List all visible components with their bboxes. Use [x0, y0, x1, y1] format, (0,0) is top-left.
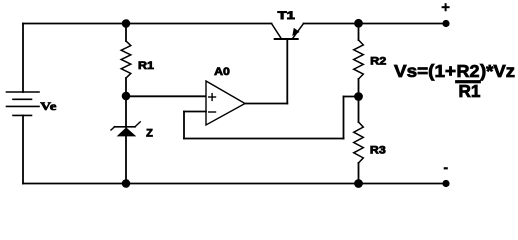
node R3 bottom junction [354, 179, 363, 188]
node divider junction [354, 92, 363, 101]
formula Vs=(1+R2/R1)*Vz [394, 61, 515, 101]
wire bottom rail right segment [359, 183, 447, 185]
svg-text:R2: R2 [457, 61, 480, 81]
wire op-amp minus input [184, 111, 206, 113]
svg-text:R2: R2 [370, 55, 386, 67]
svg-text:R1: R1 [459, 81, 481, 101]
resistor R3 [354, 97, 364, 184]
wire bottom rail middle segment [126, 183, 359, 185]
resistor R1 [121, 24, 131, 97]
terminal plus [442, 20, 449, 27]
svg-text:)*Vz: )*Vz [480, 61, 515, 81]
transistor T1 [272, 24, 304, 40]
svg-text:T1: T1 [278, 10, 295, 22]
wire op-amp output [245, 103, 287, 105]
node R2 top junction [354, 19, 363, 28]
svg-text:Z: Z [146, 127, 153, 139]
op-amp A0 [206, 81, 245, 125]
wire left vertical lower [22, 115, 24, 183]
wire bottom rail left segment [23, 183, 126, 185]
wire feedback horizontal [184, 138, 344, 140]
wire feedback to divider node [344, 96, 359, 98]
wire op-amp plus input [126, 95, 206, 97]
wire left vertical upper [22, 24, 24, 93]
wire T1 base lead [286, 39, 288, 104]
wire R2 node to plus terminal [359, 23, 447, 25]
terminal minus [442, 180, 449, 187]
resistor R2 [354, 24, 364, 97]
battery Ve [7, 92, 40, 115]
zener diode Z [111, 96, 140, 184]
wire feedback vertical left [183, 112, 185, 139]
label minus [444, 167, 448, 169]
label plus [443, 4, 449, 10]
svg-text:Vs=(1+: Vs=(1+ [394, 61, 456, 81]
svg-text:R3: R3 [370, 145, 386, 157]
node R1 top junction [122, 19, 131, 28]
wire top rail left [23, 23, 272, 25]
svg-text:R1: R1 [138, 60, 154, 72]
node R1 bottom junction [122, 92, 131, 101]
svg-text:A0: A0 [214, 66, 230, 78]
wire feedback vertical right [343, 97, 345, 139]
node zener bottom junction [122, 179, 131, 188]
wire emitter to R2 node [304, 23, 359, 25]
svg-text:Ve: Ve [40, 99, 57, 113]
